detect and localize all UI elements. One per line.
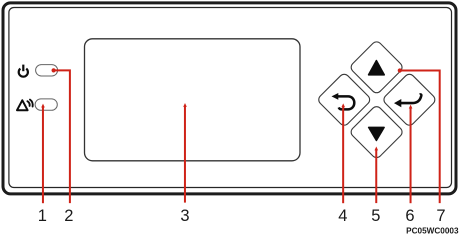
escape button bbox=[317, 72, 372, 127]
svg-text:6: 6 bbox=[405, 207, 414, 225]
svg-text:3: 3 bbox=[180, 207, 189, 225]
down arrow glyph bbox=[369, 127, 384, 140]
up button bbox=[349, 40, 404, 95]
power icon bbox=[19, 65, 28, 77]
leader line 7 bbox=[400, 71, 440, 204]
svg-text:4: 4 bbox=[338, 207, 347, 225]
leader line 5 bbox=[375, 147, 379, 204]
down button bbox=[349, 105, 404, 160]
enter button bbox=[382, 72, 437, 127]
alert LED indicator bbox=[35, 99, 57, 110]
leader line 3 bbox=[183, 103, 187, 203]
svg-text:1: 1 bbox=[38, 207, 47, 225]
display screen bbox=[85, 39, 301, 161]
control panel inner face bbox=[9, 8, 452, 188]
svg-text:7: 7 bbox=[436, 207, 445, 225]
svg-text:PC05WC0003: PC05WC0003 bbox=[406, 227, 459, 236]
enter arrow glyph bbox=[394, 94, 421, 107]
power LED indicator bbox=[36, 65, 58, 76]
svg-text:2: 2 bbox=[64, 207, 73, 225]
escape arrow glyph bbox=[332, 93, 355, 109]
control panel outer bezel bbox=[3, 3, 456, 194]
leader line 1 bbox=[41, 104, 45, 204]
leader line 4 bbox=[341, 103, 345, 203]
leader line 2 bbox=[53, 70, 70, 203]
svg-text:5: 5 bbox=[371, 207, 380, 225]
leader line 6 bbox=[409, 105, 413, 204]
up arrow glyph bbox=[369, 61, 385, 75]
alert icon bbox=[17, 100, 33, 111]
